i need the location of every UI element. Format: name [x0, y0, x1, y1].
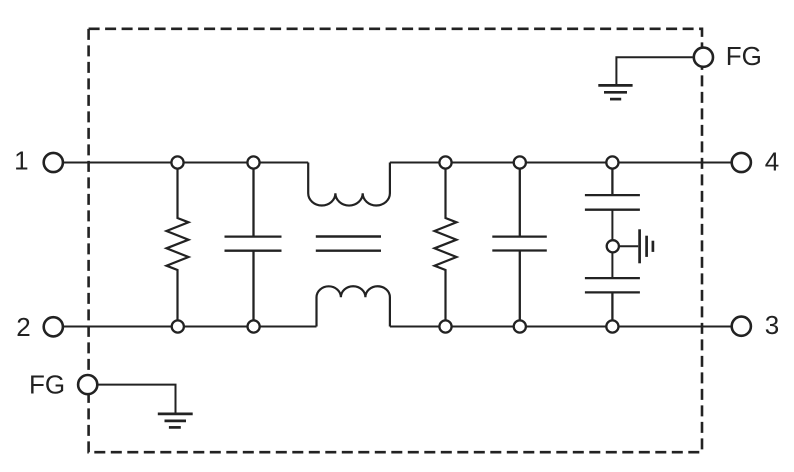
svg-text:FG: FG — [29, 369, 65, 399]
terminal 2 — [44, 317, 63, 336]
node junction top of R2 — [439, 156, 451, 168]
ground symbol (bottom, frame ground) — [158, 414, 193, 428]
wire from FG terminal (bottom) to ground — [98, 385, 175, 413]
terminal 3 — [732, 317, 751, 336]
node junction between Y-capacitors — [607, 240, 619, 252]
svg-text:3: 3 — [765, 310, 779, 340]
terminal 4 — [732, 153, 751, 172]
node junction top of R1 — [171, 156, 183, 168]
node junction top of C3 — [606, 156, 618, 168]
terminal FG top right — [694, 48, 713, 67]
wire between Y-capacitors — [611, 210, 613, 278]
inductor L1 top winding of common-mode choke — [308, 163, 390, 206]
terminal FG bottom left — [78, 375, 97, 394]
wire from FG terminal (top) to ground — [616, 57, 692, 85]
node junction bottom of R1 — [172, 320, 184, 332]
ground symbol (sideways, at Y-capacitor midpoint) — [640, 229, 653, 263]
node junction bottom of C2 — [514, 320, 526, 332]
resistor R2 — [435, 163, 457, 327]
wire from midpoint node to chassis ground — [617, 245, 638, 247]
capacitor C4 (lower Y-capacitor) — [585, 278, 640, 326]
svg-text:4: 4 — [765, 146, 779, 176]
resistor R1 (line 1 to line 2) — [167, 163, 189, 327]
terminal 1 — [44, 153, 63, 172]
node junction bottom of C1 — [248, 320, 260, 332]
wire top rail left segment (node 1 to choke) — [64, 162, 308, 164]
node junction bottom of R2 — [439, 320, 451, 332]
wire top rail right segment (choke to node 4) — [390, 162, 731, 164]
node junction bottom of C4 — [606, 320, 618, 332]
node junction top of C1 — [247, 156, 259, 168]
inductor L2 bottom winding of common-mode choke — [317, 286, 390, 326]
capacitor C3 (upper Y-capacitor) — [585, 163, 640, 210]
capacitor C2 — [492, 163, 547, 327]
svg-text:2: 2 — [16, 312, 30, 342]
choke core lines — [316, 237, 381, 251]
wire bottom rail left segment (node 2 to choke) — [64, 326, 317, 328]
svg-text:1: 1 — [14, 146, 28, 176]
wire bottom rail right segment (choke to node 3) — [390, 326, 731, 328]
ground symbol (top, frame ground) — [598, 85, 632, 99]
capacitor C1 — [225, 163, 282, 327]
filter enclosure dashed border — [89, 29, 702, 452]
svg-text:FG: FG — [726, 41, 762, 71]
node junction top of C2 — [514, 156, 526, 168]
